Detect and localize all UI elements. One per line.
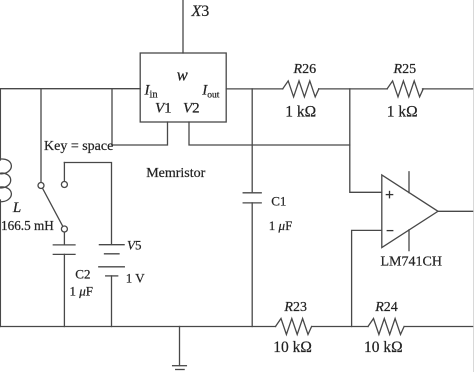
svg-text:R24: R24 xyxy=(374,300,398,315)
svg-text:w: w xyxy=(177,65,188,84)
svg-text:LM741CH: LM741CH xyxy=(381,254,442,269)
svg-text:Iout: Iout xyxy=(201,83,220,101)
svg-text:X3: X3 xyxy=(191,3,210,20)
svg-text:1 μF: 1 μF xyxy=(70,283,94,298)
svg-text:1 μF: 1 μF xyxy=(269,218,293,233)
svg-text:C2: C2 xyxy=(75,266,90,281)
svg-text:R26: R26 xyxy=(293,62,317,77)
svg-text:1 kΩ: 1 kΩ xyxy=(387,103,418,120)
svg-text:10 kΩ: 10 kΩ xyxy=(273,339,312,356)
svg-text:Iin: Iin xyxy=(144,83,159,101)
svg-text:Memristor: Memristor xyxy=(146,166,205,181)
svg-text:V1: V1 xyxy=(155,101,172,117)
svg-text:V2: V2 xyxy=(183,101,200,117)
svg-text:V5: V5 xyxy=(127,238,141,253)
svg-text:C1: C1 xyxy=(271,194,286,209)
svg-text:1 kΩ: 1 kΩ xyxy=(285,103,316,120)
svg-text:10 kΩ: 10 kΩ xyxy=(364,339,403,356)
svg-text:1 V: 1 V xyxy=(126,270,146,285)
svg-text:166.5 mH: 166.5 mH xyxy=(1,218,54,233)
svg-text:Key = space: Key = space xyxy=(44,139,113,154)
svg-text:L: L xyxy=(12,200,21,216)
svg-text:R25: R25 xyxy=(393,62,417,77)
svg-text:R23: R23 xyxy=(283,300,307,315)
